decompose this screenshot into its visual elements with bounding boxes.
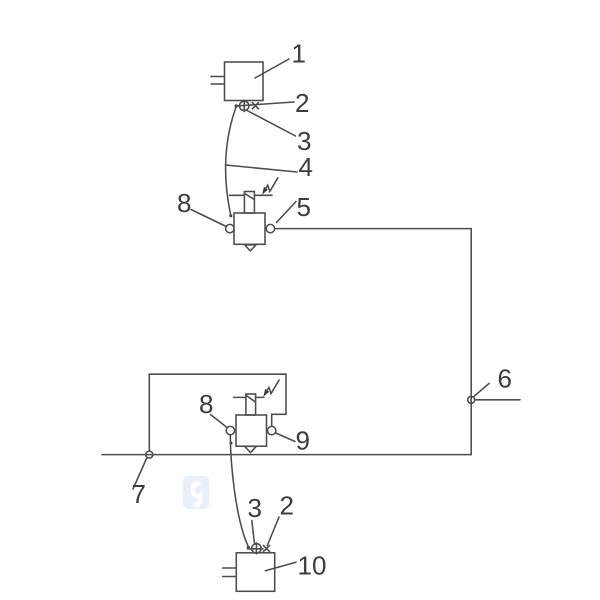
loop rectangle wire around valve U9	[149, 374, 286, 451]
node 7 circle	[146, 451, 153, 458]
leader line to upper label 8	[191, 210, 226, 227]
svg-text:9: 9	[296, 426, 310, 456]
leader line to lower label 3	[252, 521, 255, 544]
leader line to label 9	[276, 433, 295, 442]
junction dot left of node	[235, 104, 238, 107]
wire/leader line through node to label 2	[236, 102, 294, 106]
valve U9 body	[236, 415, 267, 446]
valve U9 bottom drain triangle	[245, 446, 256, 452]
svg-text:7: 7	[132, 479, 146, 509]
node ⊕ above box 10 (circle with cross)	[252, 544, 261, 553]
leader line to label 4	[226, 165, 298, 172]
stub wire right of node 6	[475, 399, 520, 401]
X mark 2	[252, 103, 258, 109]
svg-text:8: 8	[177, 188, 191, 218]
leader line to label 3	[247, 111, 296, 137]
valve U9 right port circle	[268, 426, 276, 434]
svg-text:4: 4	[299, 152, 313, 182]
valve U9 left port circle	[226, 426, 234, 434]
valve U9 adjustment arrow	[263, 389, 269, 397]
leader line to label 7	[133, 459, 147, 490]
right vertical bus wire	[470, 229, 472, 455]
valve U5 solenoid rect	[244, 192, 254, 214]
valve U9 solenoid diagonal	[246, 395, 255, 401]
svg-text:10: 10	[298, 551, 327, 581]
X mark 2 (lower)	[263, 545, 269, 551]
valve U5 pilot line right	[254, 194, 272, 196]
valve U5 adjustment arrow	[262, 187, 268, 195]
component box 10	[236, 553, 274, 592]
svg-text:5: 5	[297, 192, 311, 222]
valve U9 pilot line left	[234, 396, 246, 398]
valve U5 pilot line left	[230, 194, 245, 196]
valve U5 right port circle	[266, 224, 274, 232]
junction dot under valve U9 left port	[230, 442, 233, 445]
curved pipe 4	[226, 107, 236, 216]
svg-text:2: 2	[280, 491, 294, 521]
svg-text:1: 1	[292, 39, 306, 69]
valve U9 pilot line right	[256, 396, 264, 398]
leader line to label 1	[255, 59, 289, 78]
valve U5 bottom drain triangle	[245, 245, 256, 251]
watermark logo	[183, 476, 210, 509]
svg-text:8: 8	[199, 389, 213, 419]
wire from valve U5 right port to right bus	[275, 228, 472, 230]
terminal double line of box 10	[223, 568, 236, 577]
leader line to label 10	[265, 562, 296, 571]
bottom horizontal bus wire	[102, 454, 471, 456]
svg-text:6: 6	[498, 364, 512, 394]
terminal double line of box 1	[211, 77, 225, 85]
leader line to label 6	[474, 384, 489, 397]
valve U9 solenoid rect	[246, 394, 256, 415]
svg-text:3: 3	[248, 493, 262, 523]
svg-text:2: 2	[295, 88, 309, 118]
node 6 circle	[468, 396, 475, 403]
leader line to label 5	[277, 202, 297, 223]
node ⊕ under box 1 (circle with cross)	[240, 101, 249, 110]
valve U5 body	[234, 213, 265, 244]
valve U5 left port circle	[226, 224, 234, 232]
valve U5 solenoid diagonal	[245, 194, 254, 200]
component box 1	[225, 62, 264, 101]
junction dot at end of pipe 4	[229, 214, 232, 217]
leader line to lower label 2	[267, 517, 279, 546]
junction dot at end of curved pipe	[247, 546, 250, 549]
leader line to lower label 8	[211, 415, 228, 428]
curved pipe from valve U9 to node below	[230, 435, 248, 547]
